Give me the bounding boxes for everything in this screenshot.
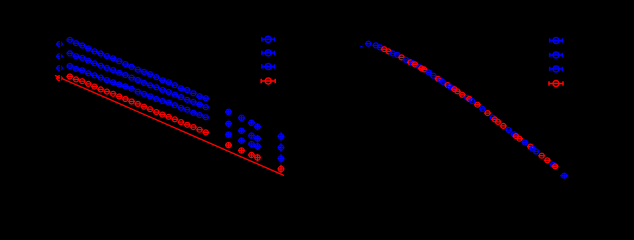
legend entry marker (blue) (262, 64, 275, 70)
legend entry marker (blue) (262, 36, 275, 42)
right panel y-axis spine (black, over markers) (363, 28, 365, 196)
legend entry marker (blue) (550, 66, 563, 72)
left panel series S2 (blue circles): sparse points with error bars (225, 121, 285, 152)
left panel series S3 (blue circles): first data point at axis (56, 66, 63, 71)
left panel series S4 (red circles): first data point at axis (56, 76, 63, 81)
right panel mixed blue/red data chain (372, 43, 558, 169)
left panel series S3 (blue circles): sparse points with error bars (225, 132, 285, 163)
legend entry marker (blue) (550, 52, 563, 58)
legend entry marker (red) (261, 78, 275, 84)
legend entry marker (blue) (550, 38, 563, 44)
right panel first data point (365, 41, 372, 46)
left panel y-axis spine (black, over markers) (60, 28, 62, 196)
left panel series S4 (red circles): dense data chain (66, 74, 209, 135)
left panel series S1 (blue circles): sparse points with error bars (225, 109, 285, 140)
left panel series S1 (blue circles): dense data chain (66, 37, 209, 100)
legend entry marker (red) (549, 81, 563, 87)
legend entry marker (blue) (262, 50, 275, 56)
left panel red fit line (55, 76, 284, 176)
left panel series S2 (blue circles): first data point at axis (56, 54, 63, 59)
left panel series S2 (blue circles): dense data chain (66, 51, 209, 110)
right panel clipped error-bar fragment at axis (360, 46, 362, 48)
left panel series S3 (blue circles): dense data chain (66, 64, 209, 120)
left panel series S4 (red circles): sparse points with error bars (225, 143, 285, 174)
right panel last isolated point (blue) (560, 173, 568, 178)
left panel series S1 (blue circles): first data point at axis (56, 42, 63, 47)
